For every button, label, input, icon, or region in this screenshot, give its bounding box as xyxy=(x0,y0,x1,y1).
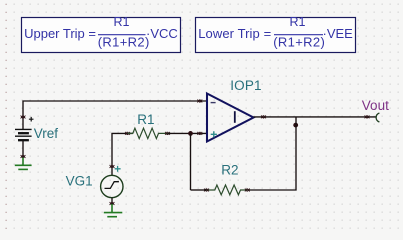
pin cross: VG1 bottom xyxy=(110,202,115,205)
pin cross: op-amp output xyxy=(261,115,266,118)
wire: op-amp output to Vout terminal xyxy=(254,116,376,118)
wire: R1 to op-amp plus input xyxy=(168,132,208,134)
wire: VG1 bottom to ground xyxy=(111,198,113,205)
generator VG1 xyxy=(101,175,123,197)
svg-text:·VEE: ·VEE xyxy=(323,26,354,41)
plus mark VG1 xyxy=(115,166,121,172)
svg-text:Vout: Vout xyxy=(362,98,389,113)
svg-text:Vref: Vref xyxy=(34,126,59,141)
wire: battery bottom to ground xyxy=(22,141,24,158)
ground under Vref xyxy=(15,158,32,170)
svg-text:R1: R1 xyxy=(137,112,154,127)
svg-text:R1: R1 xyxy=(114,15,130,29)
wire: R2 left lead to branch corner xyxy=(191,189,207,191)
wire: output junction down to R2 right xyxy=(247,117,296,190)
svg-text:(R1+R2): (R1+R2) xyxy=(273,34,325,49)
formula box: Lower Trip xyxy=(196,15,356,52)
resistor R1 xyxy=(128,128,168,138)
pin cross: op-amp plus input xyxy=(197,132,202,135)
svg-text:R2: R2 xyxy=(221,163,238,178)
svg-text:Upper Trip =: Upper Trip = xyxy=(24,26,96,41)
wire: top net from Vref to op-amp minus input xyxy=(23,101,207,129)
pin cross: R1 left xyxy=(125,132,130,135)
pin cross: op-amp minus input xyxy=(197,100,202,103)
plus mark xyxy=(29,117,34,122)
pin cross: R2 left xyxy=(204,189,209,192)
svg-text:VG1: VG1 xyxy=(66,174,93,189)
pin cross: VG1 top xyxy=(110,165,115,168)
pin cross: battery top xyxy=(21,116,26,119)
svg-text:R1: R1 xyxy=(290,15,306,29)
ground under VG1 xyxy=(104,204,123,217)
junction: plus rail to R2 branch xyxy=(188,131,193,136)
wire: VG1 top to R1 net (plus input rail) xyxy=(112,133,133,175)
pin cross: R2 right xyxy=(245,189,250,192)
wire: junction down to R2 xyxy=(190,133,192,190)
svg-text:(R1+R2): (R1+R2) xyxy=(98,34,150,49)
minus input mark xyxy=(211,102,216,104)
junction: output to R2 branch xyxy=(293,123,298,128)
ideal marker I xyxy=(234,111,236,123)
pin cross: battery bottom xyxy=(21,155,26,158)
pin cross: Vout terminal xyxy=(365,115,370,118)
pin cross: R1 right xyxy=(165,132,170,135)
resistor R2 xyxy=(207,185,248,195)
battery Vref xyxy=(15,117,34,140)
op-amp IOP1 xyxy=(207,94,254,142)
svg-text:·VCC: ·VCC xyxy=(146,26,178,41)
svg-text:Lower Trip =: Lower Trip = xyxy=(198,26,271,41)
formula box: Upper Trip xyxy=(22,15,181,52)
output terminal arc xyxy=(376,113,379,122)
svg-text:IOP1: IOP1 xyxy=(230,78,262,93)
plus input mark xyxy=(211,131,217,137)
